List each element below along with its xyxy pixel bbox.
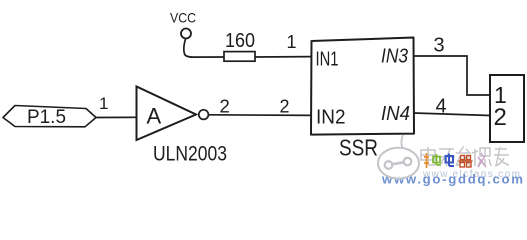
svg-text:3: 3 xyxy=(434,35,445,57)
svg-text:A: A xyxy=(147,104,162,129)
svg-text:VCC: VCC xyxy=(170,10,196,26)
svg-text:IN1: IN1 xyxy=(316,49,339,71)
watermark colored characters xyxy=(424,153,486,168)
svg-text:1: 1 xyxy=(99,94,108,113)
svg-text:2: 2 xyxy=(494,104,507,131)
SSR module xyxy=(311,38,414,135)
svg-text:P1.5: P1.5 xyxy=(27,107,66,128)
svg-text:IN4: IN4 xyxy=(381,103,410,125)
wire resistor to SSR IN1 xyxy=(255,56,312,58)
wire P1.5 to inverter xyxy=(96,116,137,118)
watermark logo balloon xyxy=(378,135,419,179)
svg-text:ULN2003: ULN2003 xyxy=(153,143,227,166)
wire SSR IN4 to connector xyxy=(414,113,490,116)
svg-text:1: 1 xyxy=(287,32,297,52)
op-amp U1 inverter A xyxy=(137,87,209,141)
svg-text:IN2: IN2 xyxy=(316,107,346,129)
svg-text:160: 160 xyxy=(225,30,255,52)
resistor 160 xyxy=(224,30,255,61)
watermark large gray characters xyxy=(421,147,509,167)
node P1.5 xyxy=(3,106,96,128)
connector J1 xyxy=(490,75,524,142)
wire SSR IN3 to connector xyxy=(414,56,490,95)
svg-text:IN3: IN3 xyxy=(381,46,408,68)
svg-text:2: 2 xyxy=(220,96,230,117)
svg-text:SSR: SSR xyxy=(339,135,378,161)
wire inverter output to SSR IN2 xyxy=(209,114,312,117)
svg-text:2: 2 xyxy=(280,97,290,117)
power VCC terminal xyxy=(170,10,224,58)
